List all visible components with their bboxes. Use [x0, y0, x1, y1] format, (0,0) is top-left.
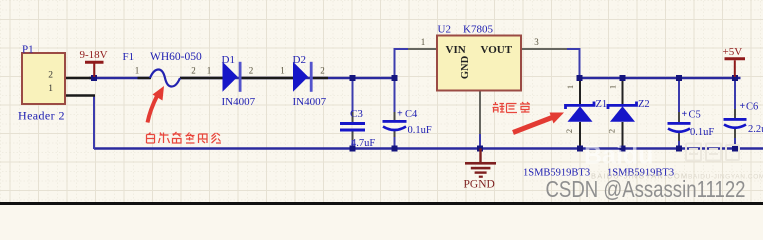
capacitor C5 top plate — [668, 122, 691, 125]
junction dot at C6 bottom — [732, 146, 738, 152]
svg-text:3: 3 — [534, 37, 539, 47]
wire: ground rail — [94, 147, 763, 149]
svg-text:CSDN @Assassin11122: CSDN @Assassin11122 — [546, 176, 746, 202]
svg-text:VOUT: VOUT — [481, 44, 513, 56]
svg-text:IN4007: IN4007 — [222, 96, 256, 108]
wire: corner down to +5V rail — [579, 48, 581, 78]
junction dot at +5V tap — [732, 75, 738, 81]
svg-text:P1: P1 — [22, 44, 34, 56]
svg-text:0.1uF: 0.1uF — [690, 127, 714, 138]
ground PGND stem — [479, 149, 481, 163]
svg-text:Header 2: Header 2 — [18, 109, 65, 123]
svg-text:U2: U2 — [438, 24, 451, 36]
wire: C3 top branch — [352, 78, 354, 114]
junction dot at 9-18V tap — [91, 75, 97, 81]
wire: C5 bottom branch — [678, 139, 680, 149]
power port +5V stem — [734, 60, 736, 77]
diode D2 pin 2 stub — [313, 77, 328, 79]
C3 pin stubs — [352, 112, 354, 140]
svg-text:GND: GND — [460, 55, 471, 79]
svg-text:+: + — [397, 109, 403, 120]
svg-text:PGND: PGND — [464, 179, 495, 191]
capacitor C6 curved plate — [724, 125, 746, 128]
diode D1 pin 2 stub — [241, 77, 294, 79]
wire: horizontal to U2 pin 1 — [394, 48, 413, 50]
wire: C6 bottom branch — [734, 136, 736, 149]
annotation text 自恢复保险丝 (hand-drawn strokes) — [147, 132, 222, 143]
svg-text:C3: C3 — [350, 108, 363, 120]
diode D1 cathode bar — [239, 62, 242, 92]
svg-text:2: 2 — [48, 71, 53, 81]
svg-text:1: 1 — [207, 66, 212, 76]
capacitor C4 curved plate — [383, 127, 406, 131]
svg-text:D1: D1 — [222, 54, 235, 66]
wire: C3 bottom branch — [352, 138, 354, 149]
svg-text:WH60-050: WH60-050 — [150, 51, 202, 63]
fuse F1 pin 2 stub — [180, 77, 224, 79]
wire: fuse to junction rail — [180, 77, 396, 79]
capacitor C4 top plate — [383, 120, 407, 123]
wire: C5 top branch — [678, 78, 680, 114]
TVS Z1 bottom pin — [579, 122, 581, 149]
fuse F1 wavy body — [150, 70, 180, 87]
ground PGND bar 2 — [471, 167, 491, 170]
TVS Z2 top pin — [622, 78, 624, 104]
ground PGND bar 3 — [475, 171, 487, 173]
junction dot at PGND tap — [477, 146, 483, 152]
svg-text:F1: F1 — [123, 51, 135, 63]
capacitor C3 bottom plate — [340, 129, 365, 132]
wire: main input rail segment P1 to fuse — [89, 77, 150, 79]
connector P1 pin 2 stub — [65, 77, 91, 79]
svg-text:2.2uF: 2.2uF — [748, 124, 763, 135]
svg-text:2: 2 — [320, 66, 325, 76]
junction dot at C4 bottom — [392, 146, 398, 152]
wire: vertical from rail up to U2 pin1 level — [394, 49, 396, 78]
browser bottom edge bar — [0, 202, 763, 205]
annotation red arrow pointing to Z1 — [513, 118, 552, 133]
wire: C6 top branch — [734, 78, 736, 111]
svg-text:1: 1 — [608, 85, 618, 89]
svg-text:2: 2 — [607, 129, 617, 133]
svg-text:2: 2 — [249, 66, 254, 76]
power port 9-18V stem — [93, 64, 95, 78]
capacitor C3 top plate — [340, 122, 365, 125]
diode D1 triangle — [223, 62, 238, 92]
svg-text:1: 1 — [135, 66, 140, 76]
power port 9-18V bar — [85, 61, 104, 64]
svg-text:+: + — [740, 101, 746, 112]
junction dot at Z1 top — [577, 75, 583, 81]
svg-text:K7805: K7805 — [463, 24, 493, 36]
svg-text:4.7uF: 4.7uF — [351, 138, 375, 149]
TVS diode Z1 triangle — [568, 106, 593, 122]
wire: U2 GND pin lower segment — [479, 132, 481, 149]
fuse F1 pin 1 stub — [138, 77, 152, 79]
U2 GND pin lead — [479, 90, 481, 134]
wire: vertical down to C4 — [394, 78, 396, 121]
annotation red arrow pointing to fuse — [148, 96, 158, 123]
svg-text:Z1: Z1 — [596, 99, 608, 110]
svg-text:1: 1 — [48, 84, 53, 94]
svg-text:1: 1 — [565, 85, 575, 89]
wire: C4 bottom to ground rail — [394, 131, 396, 149]
svg-text:C5: C5 — [689, 110, 701, 121]
junction dot at Z2 top — [620, 75, 626, 81]
connector P1 body — [22, 53, 65, 104]
svg-text:D2: D2 — [293, 54, 306, 66]
junction dot at C3 bottom — [350, 146, 356, 152]
svg-text:2: 2 — [191, 66, 196, 76]
svg-text:IN4007: IN4007 — [293, 96, 327, 108]
wire: U2 pin3 to corner — [565, 48, 581, 50]
ground PGND bar 1 — [465, 162, 496, 165]
C4 pin stubs — [394, 112, 396, 137]
svg-text:0.1uF: 0.1uF — [408, 125, 432, 136]
TVS Z2 bottom pin — [622, 122, 624, 149]
svg-text:9-18V: 9-18V — [80, 49, 108, 61]
C5 pin stubs — [678, 112, 680, 141]
svg-text:2: 2 — [564, 129, 574, 133]
connector P1 pin 1 stub — [65, 94, 95, 96]
C6 pin stubs — [734, 109, 736, 138]
svg-text:1: 1 — [421, 37, 426, 47]
diode D2 triangle — [293, 62, 308, 92]
TVS diode Z1 cathode bar with bent ends — [566, 102, 595, 110]
junction dot at C3 tap — [350, 75, 356, 81]
svg-text:C4: C4 — [405, 109, 418, 120]
regulator U2 body — [437, 36, 521, 91]
junction dot at Z2 bottom — [620, 146, 626, 152]
capacitor C6 top plate — [724, 118, 747, 121]
TVS Z1 top pin — [579, 78, 581, 104]
junction dot at C5 top — [676, 75, 682, 81]
U2 pin 1 lead — [408, 48, 437, 50]
svg-text:+5V: +5V — [723, 46, 743, 58]
svg-text:Baidu: Baidu — [584, 142, 653, 170]
ground PGND bar 4 — [479, 176, 483, 178]
TVS diode Z2 cathode bar with bent ends — [608, 102, 637, 110]
svg-text:1: 1 — [280, 66, 285, 76]
junction dot at Z1 bottom — [577, 146, 583, 152]
svg-text:Z2: Z2 — [638, 99, 650, 110]
junction dot at C5 bottom — [676, 146, 682, 152]
wire: P1 pin1 down to ground rail — [93, 96, 95, 150]
annotation text 稳压管 (hand-drawn strokes) — [493, 102, 531, 113]
svg-text:+: + — [682, 109, 688, 120]
capacitor C5 curved plate — [668, 129, 690, 132]
TVS diode Z2 triangle — [610, 106, 635, 122]
diode D2 cathode bar — [310, 62, 313, 92]
svg-text:C6: C6 — [746, 102, 758, 113]
U2 pin 3 lead — [521, 48, 567, 50]
junction dot at C4/U2 corner — [392, 75, 398, 81]
wire: +5V output rail — [580, 77, 741, 79]
svg-text:VIN: VIN — [446, 44, 466, 56]
power port +5V bar — [725, 57, 746, 60]
